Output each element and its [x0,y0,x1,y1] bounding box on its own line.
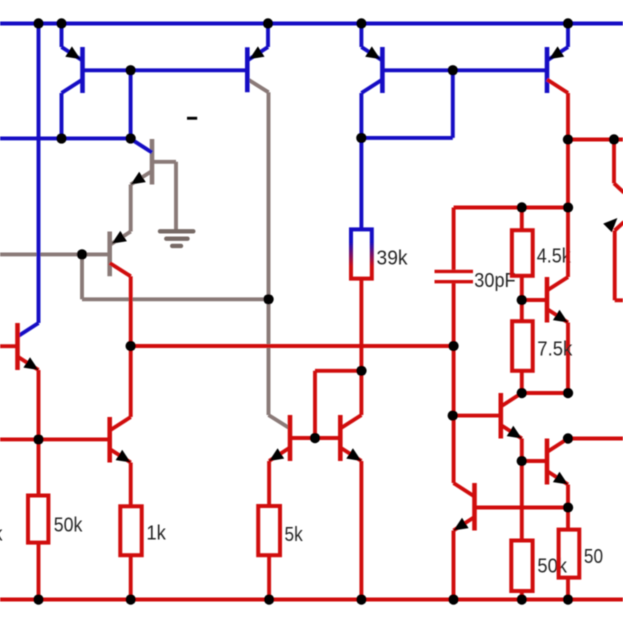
svg-text:1k: 1k [146,522,166,544]
svg-text:50: 50 [584,546,603,568]
svg-text:5k: 5k [285,524,304,546]
svg-text:50k: 50k [537,555,568,577]
svg-text:7.5k: 7.5k [537,339,573,361]
svg-text:39k: 39k [377,248,409,270]
svg-text:50k: 50k [54,515,83,537]
svg-text:30pF: 30pF [474,270,515,292]
